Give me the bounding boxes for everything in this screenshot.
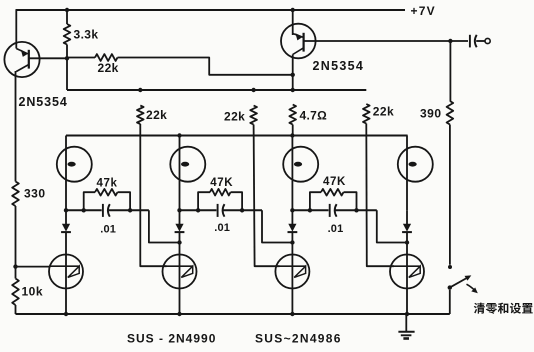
wire (diode 3 to SCR3) <box>291 232 293 288</box>
wire (3.3k to base node) <box>66 45 68 59</box>
svg-text:22k: 22k <box>98 61 119 75</box>
transistor Q2 2N5354 <box>281 24 316 59</box>
wire (lamp 1 to diode 1) <box>65 210 67 224</box>
node (lamp rail / lamp 3) <box>290 133 294 137</box>
lamp DS3 <box>283 147 318 182</box>
wire (lamp 2 top lead) <box>179 136 181 211</box>
wire (3.3k top lead) <box>66 10 68 24</box>
svg-text:SUS~2N4986: SUS~2N4986 <box>255 332 342 346</box>
node (330/10k divider tap) <box>13 264 17 268</box>
wire (330 to tap) <box>15 206 17 267</box>
svg-text:SUS - 2N4990: SUS - 2N4990 <box>127 332 216 346</box>
capacitor .01 (stage 1) <box>102 204 104 217</box>
node (SCR2 / ground rail) <box>177 312 181 316</box>
svg-text:22k: 22k <box>146 108 167 122</box>
SCR2 (SUS) <box>163 255 197 289</box>
node (lamp rail / lamp 2) <box>177 133 181 137</box>
node (stage 3 anode-load node) <box>290 208 294 212</box>
wire (lamp 1 top lead) <box>65 136 67 211</box>
node (stage 2 anode-load node) <box>177 208 181 212</box>
SCR3 (SUS) <box>275 255 309 289</box>
node (SCR4 anode) <box>405 240 409 244</box>
wire (left rail below Q1) <box>15 71 17 182</box>
lamp DS1 <box>57 147 92 182</box>
wire (10k to bottom rail) <box>15 305 17 314</box>
node (SCR4 / ground rail) <box>405 312 409 316</box>
svg-text:10k: 10k <box>22 285 44 299</box>
wire (tap to 10k) <box>15 267 17 279</box>
wire (22k-1 to SCR2 gate) <box>140 124 166 266</box>
diode D2 <box>175 224 183 232</box>
wire (junction down to 390) <box>449 41 451 101</box>
svg-text:4.7Ω: 4.7Ω <box>300 109 328 123</box>
svg-text:2N5354: 2N5354 <box>19 95 68 109</box>
switch S1 (clear/set) <box>448 265 452 269</box>
diode D1 <box>62 224 70 232</box>
resistor 22k (stage-2 gate feed) <box>137 106 144 125</box>
wire (SCR1 gate from divider) <box>16 266 50 268</box>
wire (stage 1 coupling to stage 2 anode) <box>149 210 180 242</box>
wire (left rail top) <box>15 10 17 49</box>
wire (stage 3 node row) <box>292 209 328 211</box>
node (stage 2 47k right) <box>240 208 244 212</box>
wire (stage 3 coupling to stage 4 anode) <box>377 210 407 242</box>
resistor 22k (horizontal) <box>95 54 118 61</box>
wire (Q2 base lead) <box>304 40 451 42</box>
node (stage 2 47k left) <box>196 208 200 212</box>
transistor Q1 2N5354 <box>4 42 39 77</box>
node (base / 390 / capacitor junction) <box>448 39 452 43</box>
diode D3 <box>288 224 296 232</box>
resistor 22k (stage-4 gate feed) <box>363 104 370 124</box>
node (mid rail / 4.7 / Q2) <box>291 88 295 92</box>
wire (Q2 node to mid rail) <box>292 75 294 90</box>
wire (lamp 3 to diode 3) <box>291 210 293 224</box>
svg-text:47K: 47K <box>210 177 233 189</box>
node (SCR2 anode) <box>177 240 181 244</box>
node (Q2 / stepped wire junction) <box>291 73 295 77</box>
wire (stage 1 node row) <box>66 209 102 211</box>
wire (22k stepped run to Q2 emitter node) <box>118 58 293 75</box>
node (SCR3 / ground rail) <box>290 312 294 316</box>
wire (diode 2 to SCR2) <box>179 232 181 288</box>
node (SCR3 anode) <box>290 240 294 244</box>
wire (Q2 top lead) <box>292 10 294 35</box>
node (mid rail / 22k-1) <box>138 88 142 92</box>
svg-text:22k: 22k <box>373 105 394 119</box>
wire (lamp 2 to diode 2) <box>179 210 181 224</box>
diode D4 <box>403 224 411 232</box>
SCR4 (SUS) <box>390 255 424 289</box>
resistor 47k (stage 1) <box>84 192 95 210</box>
wire (diode 1 to SCR1) <box>65 232 67 288</box>
wire (4.7Ω to lamp rail) <box>292 125 294 136</box>
terminal (output) <box>485 38 490 43</box>
wire (base node to 22k) <box>67 57 95 59</box>
node (stage 1 anode-load node) <box>64 208 68 212</box>
wire (SCR1 cathode) <box>65 289 67 315</box>
wire (SCR4 cathode) <box>406 289 408 315</box>
wire (22k-2 to SCR3 gate) <box>254 125 280 267</box>
node (stage 1 47k left) <box>82 208 86 212</box>
svg-text:47k: 47k <box>97 178 118 190</box>
resistor 390 <box>447 101 454 125</box>
wire (390 to switch) <box>449 125 451 265</box>
resistor 47k (stage 3) <box>310 192 321 210</box>
wire (lamp 4 to diode 4) <box>406 210 408 224</box>
lamp DS4 <box>398 147 433 182</box>
svg-text:330: 330 <box>24 187 46 201</box>
wire (stage 2 node row) <box>180 209 217 211</box>
wire (SCR2 cathode) <box>179 289 181 315</box>
svg-text:+7V: +7V <box>411 4 436 18</box>
capacitor (output coupling) <box>450 40 468 42</box>
label 清零和设置 (clear and set) <box>474 303 485 314</box>
wire (22k-3 to SCR4 gate) <box>366 124 394 267</box>
node (Q1 base / 3.3k / 22k) <box>65 56 69 60</box>
capacitor .01 (stage 2) <box>217 204 219 217</box>
node (stage 1 47k right) <box>128 208 132 212</box>
node (mid rail / 22k-2) <box>251 88 255 92</box>
node (top rail / 3.3k junction) <box>65 8 69 12</box>
resistor 3.3k <box>64 24 71 45</box>
svg-text:.01: .01 <box>214 222 230 234</box>
wire (base node down to mid rail) <box>66 58 68 90</box>
wire (stage 2 coupling to stage 3 anode) <box>262 210 292 242</box>
svg-text:2N5354: 2N5354 <box>313 59 365 73</box>
wire (lamp 4 top lead) <box>406 136 408 211</box>
resistor 4.7Ω (lamp rail feed) <box>289 105 296 125</box>
node (top rail / Q2 collector junction) <box>291 8 295 12</box>
resistor 330 <box>12 182 19 207</box>
svg-text:47K: 47K <box>323 176 346 188</box>
wire (switch to bottom rail) <box>449 290 451 314</box>
SCR1 (SUS) <box>49 255 83 289</box>
node (SCR1 / ground rail) <box>64 312 68 316</box>
svg-text:3.3k: 3.3k <box>74 28 99 42</box>
resistor 10k <box>12 279 19 306</box>
ground <box>405 314 407 331</box>
svg-text:22k: 22k <box>224 110 245 124</box>
wire (lamp supply rail) <box>66 134 408 136</box>
wire (bottom rail) <box>16 313 450 315</box>
svg-text:.01: .01 <box>100 224 116 236</box>
wire (SCR3 cathode) <box>291 289 293 315</box>
node (stage 3 47k left) <box>308 208 312 212</box>
resistor 47k (stage 2) <box>198 192 210 210</box>
lamp DS2 <box>170 147 205 182</box>
wire (lamp 3 top lead) <box>291 136 293 211</box>
node (stage 3 47k right) <box>354 208 358 212</box>
capacitor .01 (stage 3) <box>329 204 331 217</box>
wire (top rail +7V) <box>16 9 406 11</box>
resistor 22k (stage-3 gate feed) <box>250 106 257 125</box>
wire (diode 4 to SCR4) <box>406 232 408 288</box>
wire (mid distribution rail) <box>67 89 366 91</box>
svg-text:.01: .01 <box>328 223 344 235</box>
svg-text:390: 390 <box>420 107 442 121</box>
